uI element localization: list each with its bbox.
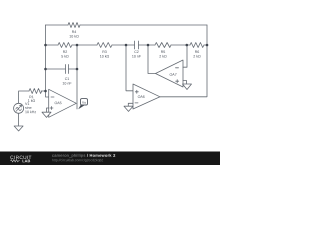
svg-text:5 kΩ: 5 kΩ <box>61 54 69 58</box>
svg-text:2 kΩ: 2 kΩ <box>193 55 201 59</box>
svg-text:OA7: OA7 <box>170 73 177 77</box>
svg-text:R2: R2 <box>63 50 68 54</box>
svg-text:R4: R4 <box>72 30 77 34</box>
svg-text:LAB: LAB <box>22 159 30 163</box>
svg-text:C2: C2 <box>134 50 139 54</box>
svg-text:R6: R6 <box>195 50 200 54</box>
svg-text:10 nF: 10 nF <box>132 55 142 59</box>
svg-text:2 kΩ: 2 kΩ <box>159 55 167 59</box>
svg-text:Vo: Vo <box>82 101 86 105</box>
svg-text:OA6: OA6 <box>138 95 145 99</box>
svg-text:R3: R3 <box>102 50 107 54</box>
svg-text:10 kΩ: 10 kΩ <box>100 54 110 58</box>
svg-text:R5: R5 <box>161 50 166 54</box>
svg-text:10 nF: 10 nF <box>62 81 72 85</box>
svg-text:OA5: OA5 <box>54 101 61 105</box>
svg-text:C1: C1 <box>65 77 70 81</box>
svg-text:10 kHz: 10 kHz <box>25 110 36 114</box>
svg-text:cameron_phillips / Homework 2: cameron_phillips / Homework 2 <box>52 153 116 158</box>
svg-text:http://circuitlab.com/c/g2ecd2: http://circuitlab.com/c/g2ecd2kq62 <box>52 158 103 162</box>
svg-text:10 kΩ: 10 kΩ <box>69 34 79 38</box>
